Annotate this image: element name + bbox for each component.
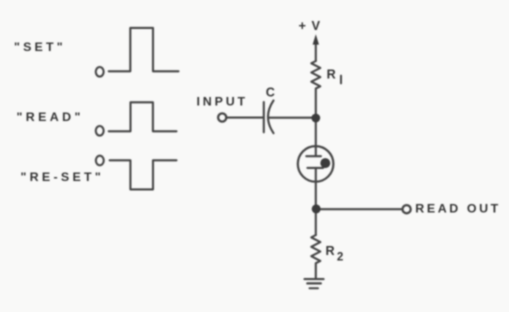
svg-text:R: R <box>326 244 335 258</box>
svg-text:INPUT: INPUT <box>197 94 248 108</box>
svg-text:R: R <box>327 68 336 82</box>
svg-text:+ V: + V <box>299 18 322 33</box>
svg-text:"SET": "SET" <box>14 40 66 54</box>
svg-text:2: 2 <box>337 250 343 263</box>
svg-text:READ OUT: READ OUT <box>415 202 501 216</box>
svg-text:"READ": "READ" <box>17 110 84 124</box>
svg-text:"RE-SET": "RE-SET" <box>21 170 105 184</box>
svg-text:C: C <box>266 85 275 99</box>
